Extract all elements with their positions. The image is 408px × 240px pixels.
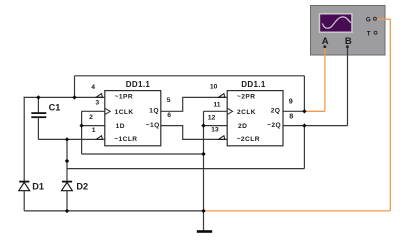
oscilloscope sine trace [322,17,350,28]
svg-text:~2PR: ~2PR [237,94,255,101]
node: ground junction [201,209,205,213]
oscilloscope XSC body [311,6,386,56]
wire: ~2Q output to B probe [283,48,348,126]
svg-text:8: 8 [289,111,293,120]
wire: main input horizontal y=97.4 [24,96,105,98]
U2 clock chevron [227,108,232,114]
scope terminal A [323,45,326,48]
wire: ground rail orange to G [204,19,391,211]
node: D2 bottom junction [65,209,69,213]
svg-text:~1CLR: ~1CLR [114,136,137,143]
oscilloscope screen [319,13,353,33]
wire: 2Q output black [283,110,304,112]
svg-text:1Q: 1Q [149,108,159,115]
svg-text:2Q: 2Q [271,108,281,115]
svg-text:3: 3 [95,100,99,107]
wire: top rail drop to 2Q [303,76,305,112]
svg-text:DD1.1: DD1.1 [241,80,266,89]
wire: top rail y=75.8 [75,75,305,77]
wire: riser to top rail [74,76,76,98]
flip-flop U1 body [105,91,161,146]
svg-text:2CLK: 2CLK [237,109,256,116]
wire: left rail vertical [23,97,25,182]
svg-text:13: 13 [211,127,219,134]
node: loop junction [201,152,205,156]
svg-text:2: 2 [89,114,93,121]
svg-text:2D: 2D [238,123,247,130]
svg-text:4: 4 [91,84,95,91]
diode D1 [19,182,30,211]
U1 clock chevron [105,108,110,114]
node: riser junction [72,95,76,99]
node: 2Q junction [302,109,306,113]
wire: 2Q to A probe orange [304,48,325,111]
scope terminal T [374,31,377,34]
svg-text:~1PR: ~1PR [115,94,133,101]
svg-text:~2CLR: ~2CLR [237,136,260,143]
node: ~2Q junction [302,123,306,127]
svg-text:G: G [366,17,371,24]
svg-text:DD1.1: DD1.1 [126,80,151,89]
svg-text:D1: D1 [32,182,44,192]
svg-text:12: 12 [208,114,216,121]
node: 1CLK/1D junction [79,123,83,127]
wire: loop y=154 to center vertical [82,153,204,155]
svg-text:B: B [345,36,352,47]
ground [197,230,212,233]
svg-text:1CLK: 1CLK [115,109,134,116]
svg-text:9: 9 [289,96,293,105]
wire: ~1Q to ~2CLR link [161,126,227,140]
wire: 1CLK to 1D vertical [81,111,83,154]
svg-text:~1Q: ~1Q [146,122,160,129]
scope terminal B [346,45,349,48]
wire: center vertical to ground [203,126,205,231]
wire: 1D stub [82,125,105,127]
svg-text:T: T [367,31,371,38]
svg-text:1D: 1D [116,123,125,130]
U2 wedge ~2PR [219,94,225,98]
U1 wedge ~1PR [96,94,102,98]
wire: C1 bottom lead [37,118,39,139]
flip-flop U2 body [227,91,283,146]
wire: right riser from ~2Q to mid rail [303,126,305,169]
wire: 1Q to ~2PR link [161,97,227,111]
svg-text:D2: D2 [76,182,88,192]
node: D2 branch dot [65,159,69,163]
wire: C1 to ~1CLR horizontal y=139.4 [38,138,104,140]
wire: bottom mid rail y=168.6 [67,168,304,170]
diode D2 [62,182,73,211]
wire: 2CLK stub [204,111,228,125]
svg-text:1: 1 [92,127,96,134]
U1 wedge ~1CLR [96,136,102,140]
capacitor C1 [31,113,46,117]
svg-text:C1: C1 [49,102,61,112]
wire: vertical to D2 [66,139,68,181]
scope terminal G [373,17,376,20]
node: 2CLK/2D junction [201,123,205,127]
svg-text:11: 11 [213,101,220,108]
wire: 2D stub [204,125,228,127]
svg-text:10: 10 [210,84,218,91]
wire: 1CLK stub [82,110,105,112]
wire: C1 top lead [37,97,39,112]
svg-text:6: 6 [167,112,171,119]
svg-text:~2Q: ~2Q [267,122,281,129]
node: C1/D2 wire junction [65,137,69,141]
svg-text:5: 5 [167,97,171,104]
wire: bottom ground rail black [24,210,203,212]
node: C1 top junction [36,95,40,99]
U2 wedge ~2CLR [219,136,225,140]
